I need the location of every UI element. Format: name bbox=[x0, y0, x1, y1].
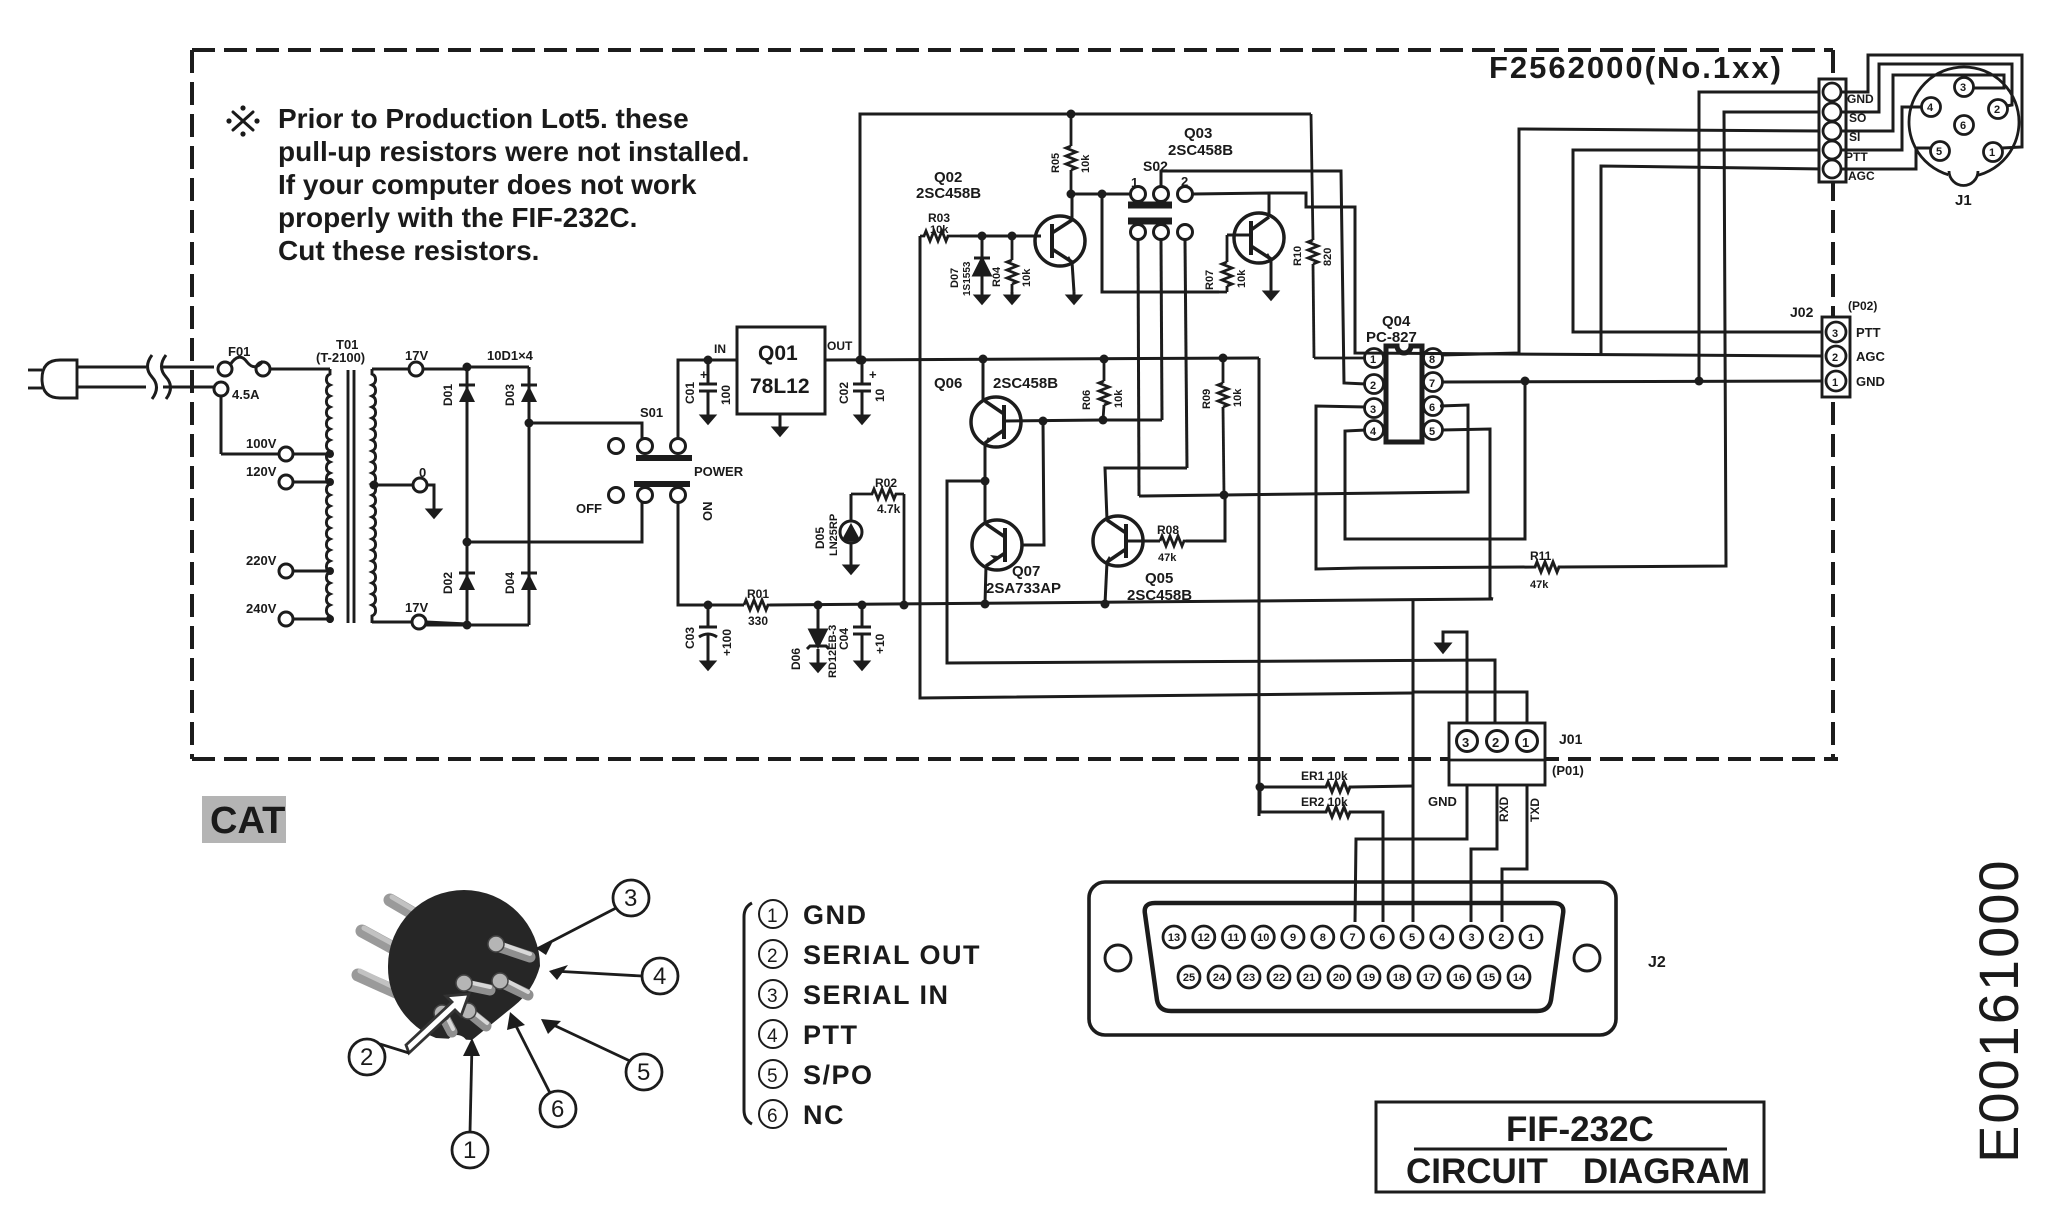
junction R06 top bbox=[1100, 355, 1109, 364]
pin 5 bbox=[1424, 421, 1443, 440]
pin SO bbox=[1823, 103, 1841, 121]
junction D02 bottom bbox=[463, 621, 472, 630]
svg-text:1: 1 bbox=[463, 1137, 476, 1164]
svg-text:C04: C04 bbox=[837, 628, 851, 650]
svg-text:GND: GND bbox=[1856, 374, 1885, 389]
svg-text:13: 13 bbox=[1168, 932, 1180, 944]
connector J2 DB-25 bbox=[1089, 882, 1616, 1035]
svg-text:4: 4 bbox=[1927, 102, 1934, 114]
svg-text:D01: D01 bbox=[441, 384, 455, 406]
svg-text:2SC458B: 2SC458B bbox=[1168, 142, 1233, 159]
svg-text:AGC: AGC bbox=[1856, 349, 1886, 364]
callout 1 bbox=[452, 1044, 488, 1168]
svg-text:FIF-232C: FIF-232C bbox=[1506, 1110, 1654, 1149]
primary taps bbox=[279, 447, 330, 626]
svg-text:10k: 10k bbox=[930, 224, 949, 236]
svg-text:R04: R04 bbox=[991, 266, 1003, 287]
svg-text:S01: S01 bbox=[640, 405, 663, 420]
wire Q04 pin5 drop to rail bbox=[1442, 429, 1493, 599]
svg-text:220V: 220V bbox=[246, 553, 277, 568]
svg-text:3: 3 bbox=[1832, 328, 1838, 340]
wire base tie down to Q07 base bbox=[1021, 421, 1044, 545]
wire Q06 base bbox=[1004, 420, 1103, 421]
svg-text:0: 0 bbox=[419, 465, 426, 480]
junction R04 bbox=[1008, 232, 1017, 241]
svg-text:LN25RP: LN25RP bbox=[828, 514, 840, 556]
svg-text:+10: +10 bbox=[873, 633, 887, 654]
svg-text:25: 25 bbox=[1183, 972, 1195, 984]
svg-text:3: 3 bbox=[1960, 82, 1966, 94]
wire Q03 base bbox=[1227, 234, 1251, 237]
resistor R02 4.7k bbox=[851, 489, 904, 605]
resistor R03 10k bbox=[920, 231, 960, 241]
wire TXD net bbox=[1413, 599, 1527, 786]
ground C01 bbox=[702, 412, 714, 423]
gray pins back side bbox=[358, 900, 450, 1005]
svg-text:2SC458B: 2SC458B bbox=[993, 375, 1058, 392]
callout 2 bbox=[349, 1039, 385, 1075]
junction pin4 riser on GND bbox=[1521, 377, 1530, 386]
capacitor C02 10 bbox=[853, 360, 871, 412]
svg-text:NC: NC bbox=[803, 1100, 845, 1130]
svg-text:IN: IN bbox=[714, 342, 726, 356]
svg-text:6: 6 bbox=[1960, 120, 1966, 132]
svg-text:Q04: Q04 bbox=[1382, 313, 1411, 330]
svg-text:CAT: CAT bbox=[210, 800, 285, 842]
wire Q07 emitter to rail bbox=[985, 566, 986, 604]
svg-text:5: 5 bbox=[1409, 932, 1415, 944]
svg-text:(T-2100): (T-2100) bbox=[316, 350, 365, 365]
svg-text:R01: R01 bbox=[747, 587, 769, 601]
junction S02 branch bbox=[1098, 190, 1107, 199]
svg-text:+: + bbox=[869, 367, 877, 382]
pin 1 bbox=[1826, 371, 1846, 391]
wire Q06 emitter bbox=[984, 443, 987, 481]
svg-text:Q02: Q02 bbox=[934, 169, 962, 186]
svg-text:24: 24 bbox=[1213, 972, 1226, 984]
wire Q03 emitter to ground bbox=[1270, 259, 1273, 288]
svg-text:GND: GND bbox=[1428, 794, 1457, 809]
wire collector node to S02 bbox=[1071, 193, 1130, 196]
pin 7 bbox=[1424, 373, 1443, 392]
DIN plug photo drawing bbox=[358, 890, 540, 1057]
svg-text:R02: R02 bbox=[875, 476, 897, 490]
resistor ER1 10k bbox=[1260, 782, 1413, 792]
svg-text:POWER: POWER bbox=[694, 464, 744, 479]
svg-text:23: 23 bbox=[1243, 972, 1255, 984]
connector J02 (P02) bbox=[1822, 317, 1850, 397]
svg-text:78L12: 78L12 bbox=[750, 375, 810, 398]
resistor R08 47k bbox=[1160, 536, 1186, 546]
junction Q06 collector top bbox=[979, 355, 988, 364]
junction rect- bbox=[463, 538, 472, 547]
junction Q07 emitter/rail bbox=[981, 600, 990, 609]
svg-text:R09: R09 bbox=[1201, 389, 1213, 409]
svg-text:1: 1 bbox=[767, 906, 779, 927]
callout 6 bbox=[514, 1022, 576, 1127]
wire Q01 ground pin bbox=[779, 414, 782, 424]
svg-text:F01: F01 bbox=[228, 344, 250, 359]
svg-text:2: 2 bbox=[1832, 352, 1838, 364]
svg-text:4: 4 bbox=[1439, 932, 1446, 944]
svg-text:21: 21 bbox=[1303, 972, 1315, 984]
junction primary taps bbox=[326, 450, 334, 458]
wire Q05 base bbox=[1126, 540, 1160, 543]
legend bracket bbox=[744, 903, 752, 1124]
diode D07 1S1553 bbox=[974, 236, 990, 292]
svg-text:PTT: PTT bbox=[1845, 150, 1868, 164]
pin PTT bbox=[1823, 141, 1841, 159]
resistor ER2 10k bbox=[1260, 787, 1383, 922]
svg-text:330: 330 bbox=[748, 614, 768, 628]
svg-text:D07: D07 bbox=[949, 268, 961, 288]
svg-text:16: 16 bbox=[1453, 972, 1465, 984]
zener D06 RD12EB-3 bbox=[807, 605, 829, 660]
svg-text:If your computer does not work: If your computer does not work bbox=[278, 169, 697, 200]
svg-text:47k: 47k bbox=[1158, 552, 1177, 564]
svg-text:100: 100 bbox=[719, 385, 733, 405]
svg-text:J2: J2 bbox=[1648, 954, 1666, 971]
wire S02 c2 jumper riser bbox=[1161, 171, 1366, 384]
junction Q06 emitter node bbox=[981, 477, 990, 486]
wire J01 GND to J2 pin7 bbox=[1355, 785, 1467, 922]
core bbox=[347, 370, 350, 623]
svg-text:E00161000: E00161000 bbox=[1967, 858, 2030, 1163]
wire common rail bbox=[770, 599, 1493, 605]
wire S02 pole1 drop bbox=[1138, 240, 1139, 496]
svg-text:3: 3 bbox=[1468, 932, 1474, 944]
legend entries bbox=[759, 900, 981, 1130]
wire S02 pole3 drop bbox=[1185, 240, 1187, 468]
wire ER1 drop to J2 pin5 bbox=[1412, 786, 1415, 922]
svg-text:5: 5 bbox=[1936, 146, 1942, 158]
svg-text:R03: R03 bbox=[928, 211, 950, 225]
svg-text:2: 2 bbox=[767, 946, 779, 967]
connector J1 DIN bbox=[1909, 67, 2019, 186]
wire Q05 emitter to rail bbox=[1105, 562, 1107, 604]
pin 8 bbox=[1424, 349, 1443, 368]
svg-text:6: 6 bbox=[551, 1096, 564, 1123]
junction R05 top bbox=[1067, 110, 1076, 119]
svg-text:pull-up resistors were not ins: pull-up resistors were not installed. bbox=[278, 136, 749, 167]
svg-text:1: 1 bbox=[1989, 147, 1995, 159]
callout 5 bbox=[545, 1021, 662, 1090]
pin 3 bbox=[1365, 399, 1384, 418]
junction R09 top bbox=[1219, 354, 1228, 363]
CAT label bbox=[202, 796, 286, 843]
junction GND riser bbox=[1695, 377, 1704, 386]
connector strip to J1 (5 pin) bbox=[1819, 79, 1846, 182]
svg-text:SERIAL OUT: SERIAL OUT bbox=[803, 940, 981, 970]
svg-text:S/PO: S/PO bbox=[803, 1060, 874, 1090]
ground D05 bbox=[845, 562, 857, 573]
svg-text:2SC458B: 2SC458B bbox=[1127, 587, 1192, 604]
svg-text:8: 8 bbox=[1429, 354, 1435, 366]
svg-text:4: 4 bbox=[1370, 426, 1377, 438]
svg-text:10k: 10k bbox=[1113, 389, 1125, 408]
pin 1 bbox=[1365, 349, 1384, 368]
pin 1 bbox=[1517, 731, 1538, 752]
svg-text:3: 3 bbox=[1462, 735, 1469, 750]
svg-text:5: 5 bbox=[1429, 426, 1435, 438]
wire Q02 emitter to ground bbox=[1072, 262, 1074, 292]
diode D02 bbox=[459, 573, 475, 590]
pin 4 bbox=[1922, 98, 1941, 117]
svg-text:100V: 100V bbox=[246, 436, 277, 451]
svg-text:17V: 17V bbox=[405, 348, 428, 363]
svg-text:ER1 10k: ER1 10k bbox=[1301, 769, 1348, 783]
wire Q04 pin4 loop to pin7 net bbox=[1345, 381, 1525, 539]
regulator Q01 78L12 bbox=[737, 327, 825, 414]
svg-text:10: 10 bbox=[873, 388, 887, 402]
svg-text:SERIAL IN: SERIAL IN bbox=[803, 980, 950, 1010]
svg-text:PC-827: PC-827 bbox=[1366, 329, 1417, 346]
pin SI bbox=[1823, 122, 1841, 140]
svg-text:J01: J01 bbox=[1559, 731, 1583, 747]
svg-text:C02: C02 bbox=[837, 382, 851, 404]
pin GND bbox=[1823, 83, 1841, 101]
junction R05 bottom / collector node bbox=[1067, 190, 1076, 199]
junction secondary center tap bbox=[370, 481, 379, 490]
svg-text:D04: D04 bbox=[503, 572, 517, 594]
wire +12V riser to top rail bbox=[860, 114, 1311, 360]
svg-text:J1: J1 bbox=[1955, 192, 1972, 209]
wire fuse to transformer bbox=[221, 369, 330, 454]
resistor R04 10k bbox=[1007, 236, 1017, 292]
svg-text:11: 11 bbox=[1228, 932, 1240, 944]
svg-text:R05: R05 bbox=[1050, 153, 1062, 173]
note text block bbox=[226, 103, 749, 266]
wire R08 to node bbox=[1186, 495, 1225, 541]
junction R06 bottom bbox=[1099, 416, 1108, 425]
pin 6 center bbox=[1955, 116, 1974, 135]
svg-text:17: 17 bbox=[1423, 972, 1435, 984]
svg-text:Q05: Q05 bbox=[1145, 570, 1173, 587]
wire GND net pin7 to J02 pin1 bbox=[1442, 381, 1824, 382]
wire Q07 collector bbox=[984, 481, 987, 524]
wire Q04 pin8 to SI strip bbox=[1441, 129, 1824, 355]
wire Q02 collector bbox=[1071, 194, 1074, 220]
svg-text:(P01): (P01) bbox=[1552, 763, 1584, 778]
svg-text:C01: C01 bbox=[683, 382, 697, 404]
capacitor C01 100 bbox=[699, 360, 717, 412]
secondary taps 17V / 0 / 17V bbox=[372, 362, 467, 629]
ground C02 bbox=[856, 412, 868, 423]
svg-text:1: 1 bbox=[1522, 735, 1529, 750]
svg-text:Prior to Production Lot5. thes: Prior to Production Lot5. these bbox=[278, 103, 689, 134]
wire GND riser to 5-pin strip bbox=[1699, 92, 1824, 381]
svg-text:OFF: OFF bbox=[576, 501, 602, 516]
pin 2 bbox=[1365, 375, 1384, 394]
junction R09 bottom node bbox=[1220, 491, 1229, 500]
wire AC cord bbox=[77, 355, 214, 399]
svg-text:8: 8 bbox=[1320, 932, 1326, 944]
svg-text:14: 14 bbox=[1513, 972, 1526, 984]
svg-text:3: 3 bbox=[1370, 404, 1376, 416]
pin 5 bbox=[1931, 142, 1950, 161]
pin AGC bbox=[1823, 160, 1841, 178]
ground (secondary 0) bbox=[428, 506, 440, 517]
svg-text:OUT: OUT bbox=[827, 339, 853, 353]
svg-text:2: 2 bbox=[1498, 932, 1504, 944]
svg-text:F2562000(No.1xx): F2562000(No.1xx) bbox=[1489, 50, 1783, 85]
svg-text:2: 2 bbox=[1370, 380, 1376, 392]
svg-text:5: 5 bbox=[637, 1059, 650, 1086]
svg-text:120V: 120V bbox=[246, 464, 277, 479]
connector J01 (P01) bbox=[1449, 723, 1545, 785]
svg-text:GND: GND bbox=[803, 900, 868, 930]
pin 1 bbox=[1984, 143, 2003, 162]
svg-text:Q07: Q07 bbox=[1012, 563, 1040, 580]
white arrow for pin2 bbox=[406, 994, 469, 1053]
ground J01 bbox=[1437, 641, 1450, 652]
svg-text:10: 10 bbox=[1257, 932, 1269, 944]
wire +12V OUT rail bbox=[825, 358, 1259, 816]
wire RXD run bbox=[947, 481, 1495, 724]
wire strip to J1 harness bbox=[1841, 55, 2022, 169]
svg-text:19: 19 bbox=[1363, 972, 1375, 984]
svg-text:RXD: RXD bbox=[1497, 796, 1511, 822]
LED D05 LN25RP bbox=[840, 494, 862, 562]
svg-text:2SA733AP: 2SA733AP bbox=[986, 580, 1061, 597]
svg-text:4.5A: 4.5A bbox=[232, 387, 260, 402]
wire Q04 pin3 to R11 (SO net) bbox=[1316, 406, 1366, 569]
connector body bbox=[388, 890, 540, 1040]
pin 2 bbox=[1826, 346, 1846, 366]
svg-text:R07: R07 bbox=[1204, 270, 1216, 290]
svg-text:47k: 47k bbox=[1530, 579, 1549, 591]
junction D01 top bbox=[463, 363, 472, 372]
wire Q06 collector bbox=[982, 359, 985, 402]
svg-text:properly with the FIF-232C.: properly with the FIF-232C. bbox=[278, 202, 637, 233]
resistor R09 10k bbox=[1218, 358, 1228, 495]
diode D01 bbox=[459, 385, 475, 402]
svg-text:820: 820 bbox=[1322, 248, 1334, 266]
svg-text:+: + bbox=[700, 367, 708, 382]
svg-text:R10: R10 bbox=[1292, 246, 1304, 266]
pin 4 bbox=[1365, 421, 1384, 440]
resistor R10 820 bbox=[1308, 114, 1366, 358]
svg-text:D05: D05 bbox=[813, 527, 827, 549]
wire pull node: S02c1 drop to Q04 pin6 bbox=[1139, 405, 1468, 496]
pin 2 bbox=[1487, 731, 1508, 752]
wire AGC run S02 to J02 pin2 bbox=[1269, 193, 1826, 356]
wire rectifier top rail bbox=[426, 367, 529, 625]
pin 6 bbox=[1424, 397, 1443, 416]
junction OUT / C02 bbox=[858, 356, 867, 365]
wire AGC strip branch bbox=[1601, 166, 1824, 354]
J2 pins row 2 bbox=[1178, 966, 1530, 988]
junction ER1 node bbox=[1256, 783, 1265, 792]
svg-text:Q01: Q01 bbox=[758, 342, 798, 365]
svg-text:Cut these resistors.: Cut these resistors. bbox=[278, 235, 539, 266]
svg-text:20: 20 bbox=[1333, 972, 1345, 984]
svg-text:TXD: TXD bbox=[1528, 798, 1542, 822]
svg-text:3: 3 bbox=[624, 885, 637, 912]
metal pin studs bbox=[443, 946, 530, 1032]
svg-text:4.7k: 4.7k bbox=[877, 502, 901, 516]
svg-text:(P02): (P02) bbox=[1848, 299, 1877, 313]
pin 2 bbox=[1989, 100, 2008, 119]
primary winding bbox=[326, 369, 330, 623]
wire J01 pin3 ground hook bbox=[1443, 632, 1467, 723]
svg-text:1: 1 bbox=[1528, 932, 1534, 944]
wire J01 RXD to J2 pin3 bbox=[1471, 785, 1497, 922]
svg-text:R08: R08 bbox=[1157, 523, 1179, 537]
wire J01 TXD to J2 pin2 bbox=[1502, 785, 1527, 922]
svg-text:3: 3 bbox=[767, 986, 779, 1007]
ground Q01 bbox=[774, 424, 786, 435]
junction riser base bbox=[856, 356, 865, 365]
svg-text:PTT: PTT bbox=[803, 1020, 859, 1050]
svg-text:R11: R11 bbox=[1530, 549, 1552, 563]
svg-text:Q06: Q06 bbox=[934, 375, 962, 392]
junction rect+ bbox=[525, 419, 534, 428]
svg-text:C03: C03 bbox=[683, 627, 697, 649]
diode D04 bbox=[521, 573, 537, 590]
svg-text:+100: +100 bbox=[720, 629, 734, 656]
svg-text:12: 12 bbox=[1198, 932, 1210, 944]
svg-text:2: 2 bbox=[1994, 104, 2000, 116]
svg-text:15: 15 bbox=[1483, 972, 1495, 984]
svg-text:1: 1 bbox=[1832, 377, 1838, 389]
pin 3 bbox=[1955, 78, 1974, 97]
svg-text:2: 2 bbox=[360, 1044, 373, 1071]
svg-text:1S1553: 1S1553 bbox=[962, 261, 973, 296]
svg-text:10k: 10k bbox=[1232, 388, 1244, 407]
svg-text:J02: J02 bbox=[1790, 304, 1814, 320]
svg-text:6: 6 bbox=[767, 1106, 779, 1127]
dashed enclosure border bbox=[192, 50, 1838, 759]
svg-text:Q03: Q03 bbox=[1184, 125, 1212, 142]
svg-text:CIRCUIT DIAGRAM: CIRCUIT DIAGRAM bbox=[1406, 1152, 1750, 1191]
resistor R01 330 bbox=[744, 600, 770, 610]
junction C01 bbox=[704, 356, 713, 365]
wire R03 feed vertical bbox=[920, 236, 1413, 698]
svg-text:6: 6 bbox=[1379, 932, 1385, 944]
wire R06 node to S02 c2 drop bbox=[1103, 419, 1162, 422]
secondary winding bbox=[372, 369, 376, 623]
callout 3 bbox=[537, 880, 649, 949]
wire S02 branch down to R07 bbox=[1102, 194, 1219, 292]
J2 pins row 1 bbox=[1163, 926, 1542, 948]
diode D03 bbox=[521, 385, 537, 402]
junction R02/rail bbox=[900, 601, 909, 610]
svg-text:4: 4 bbox=[767, 1026, 779, 1047]
junction D07 bbox=[978, 232, 987, 241]
svg-text:17V: 17V bbox=[405, 600, 428, 615]
junction Q05 emitter/rail bbox=[1101, 600, 1110, 609]
svg-text:10k: 10k bbox=[1080, 154, 1092, 173]
title box FIF-232C CIRCUIT DIAGRAM bbox=[1376, 1102, 1764, 1192]
svg-text:2: 2 bbox=[1492, 735, 1499, 750]
resistor R11 47k bbox=[1360, 112, 1824, 572]
callout 4 bbox=[553, 958, 678, 994]
pin 3 bbox=[1457, 731, 1478, 752]
junction base tie bbox=[1039, 417, 1048, 426]
svg-text:5: 5 bbox=[767, 1066, 779, 1087]
svg-text:ER2 10k: ER2 10k bbox=[1301, 795, 1348, 809]
wire rectifier outputs to switch bbox=[467, 423, 642, 542]
wire Q05 collector to S02 c3 bbox=[1105, 468, 1187, 520]
wire R03 to Q02 base bbox=[960, 235, 1041, 238]
svg-text:ON: ON bbox=[700, 502, 715, 522]
svg-text:6: 6 bbox=[1429, 402, 1435, 414]
svg-text:10k: 10k bbox=[1236, 269, 1248, 288]
resistor R07 10k bbox=[1219, 235, 1232, 292]
pin 3 bbox=[1826, 322, 1846, 342]
svg-text:GND: GND bbox=[1847, 92, 1874, 106]
